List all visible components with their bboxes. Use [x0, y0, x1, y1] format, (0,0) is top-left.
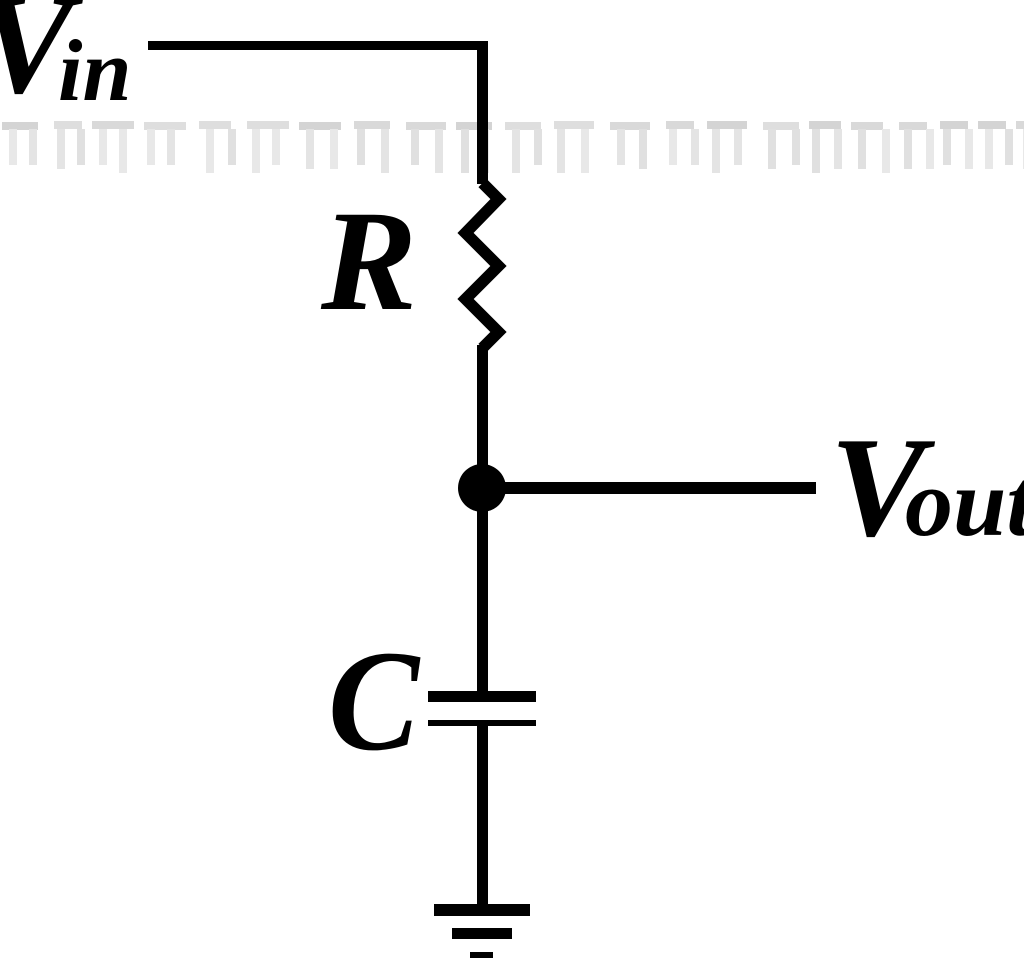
node junction dot — [458, 464, 506, 512]
capacitor C top plate — [428, 691, 536, 702]
svg-text:out: out — [905, 449, 1024, 556]
svg-text:C: C — [328, 622, 421, 781]
svg-text:in: in — [58, 23, 131, 120]
wire resistor to node — [477, 345, 488, 475]
svg-text:R: R — [320, 182, 417, 341]
ground bar 2 — [452, 928, 512, 939]
wire Vin to resistor (horizontal) — [148, 41, 488, 50]
wire capacitor to ground — [477, 726, 488, 916]
resistor R — [466, 183, 499, 348]
wire node to capacitor — [477, 500, 488, 691]
ground bar 3 — [470, 952, 493, 958]
wire node to Vout (horizontal) — [482, 482, 816, 494]
background artifact band — [2, 121, 1024, 173]
ground bar 1 — [434, 904, 530, 916]
capacitor C bottom plate — [428, 720, 536, 726]
wire vertical down to resistor — [477, 41, 488, 184]
capacitor label C — [328, 622, 421, 781]
